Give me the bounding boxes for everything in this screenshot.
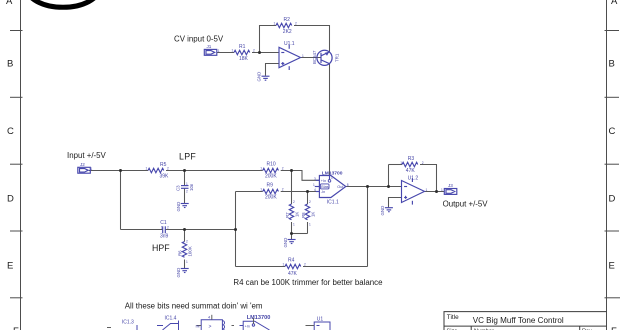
svg-text:CV input 0-5V: CV input 0-5V [174,34,224,43]
svg-text:R1: R1 [239,44,246,50]
capacitor C1 [163,226,166,233]
svg-text:U1.1: U1.1 [284,41,295,47]
svg-text:1: 1 [302,54,304,58]
svg-text:>: > [209,324,212,330]
wire TR1 emitter long vertical to IC1.1 bias [329,64,331,176]
wire IC1.1 out to U1.2 -in [346,186,402,188]
svg-text:200K: 200K [265,195,277,201]
svg-text:TR1: TR1 [335,53,340,62]
wire R3 feedback top right [420,165,437,192]
title block vertical divider 1 [470,326,472,330]
svg-text:2: 2 [282,167,284,171]
junction dot R7 top [290,169,293,172]
wire C3 to gnd [184,189,186,204]
svg-text:GND: GND [380,206,385,216]
svg-text:C: C [609,126,616,137]
wire R4 line bottom [236,266,286,268]
title block vertical divider 2 [579,326,581,330]
svg-text:47K: 47K [406,168,416,174]
junction dot LPF node [183,169,186,172]
wire R7 bottom [291,222,293,234]
right tick row C/D [605,163,620,165]
svg-text:R5: R5 [160,162,167,168]
ground R6 [181,269,189,273]
svg-text:D: D [609,194,616,205]
wire LPF node to R10 [185,170,263,172]
left tick row B/C [10,96,23,98]
svg-text:1: 1 [274,22,276,26]
wire J1 to R1 [217,52,234,54]
svg-text:4: 4 [208,315,211,320]
svg-text:B: B [609,59,615,70]
wire U1.1 +in to gnd [266,64,280,76]
svg-text:R8: R8 [301,212,306,218]
svg-text:All these bits need summat doi: All these bits need summat doin' wi 'em [125,301,263,310]
border frame left line [20,0,22,330]
svg-text:R10: R10 [267,162,276,168]
resistor R3 [402,162,418,166]
svg-text:2: 2 [304,263,306,267]
svg-text:F: F [13,326,19,330]
svg-text:C3: C3 [176,185,181,191]
svg-text:1: 1 [218,49,220,53]
junction dot R1/R2/U1.1 [258,51,261,54]
svg-text:1: 1 [260,188,262,192]
pin numbers (tiny) [91,22,444,267]
svg-text:3: 3 [314,177,316,181]
unused op-amp U1 partial symbol [306,322,331,330]
svg-text:A: A [611,0,618,7]
svg-text:D: D [7,194,14,205]
svg-text:1: 1 [260,167,262,171]
svg-text:GND: GND [257,72,262,82]
svg-text:+In: +In [321,179,326,183]
ground C3 [181,204,189,208]
svg-text:BC547: BC547 [312,50,317,64]
wire R3 feedback left vertical [388,165,390,187]
svg-text:1: 1 [331,176,333,180]
svg-text:3n9: 3n9 [160,234,169,240]
OTA IC1.1 LM13700 [315,176,346,198]
wire J2 to R5 [89,170,148,172]
svg-text:8: 8 [347,183,349,187]
logo ellipse (partial, top-left) [26,0,99,7]
unused gate IC1.3 partial symbol [136,325,138,330]
svg-text:2: 2 [186,240,188,244]
svg-text:R3: R3 [408,156,415,162]
unused gate IC1.3 pin stub [107,327,111,329]
connector J1 [204,49,217,55]
resistor R6 (vertical) [182,242,186,258]
wire R2 feedback right to transistor collector [294,26,330,52]
wire R1 to U1.1 -in [252,52,279,54]
junction dot R8 top [306,190,309,193]
resistor R1 [234,50,250,54]
resistor R9 [263,189,279,193]
wire R8 hang from -in line [307,192,309,205]
wire big vertical R9/HPF/R4 [235,192,237,267]
svg-text:U1.2: U1.2 [408,175,419,181]
right tick row D/E [605,230,620,232]
svg-text:B: B [7,59,13,70]
svg-text:2: 2 [293,200,295,204]
junction dot input J2 [119,169,122,172]
svg-text:F: F [611,326,617,330]
svg-text:IC1.3: IC1.3 [122,320,134,326]
svg-text:R9: R9 [267,183,274,189]
svg-text:Input +/-5V: Input +/-5V [67,151,107,160]
svg-text:J3: J3 [448,183,453,188]
wire output junction down to R4 [367,187,369,267]
border frame right line [606,0,608,330]
transistor TR1 [317,50,332,65]
capacitor C3 [181,186,189,189]
title block divider row [444,325,607,327]
right tick row B/C [605,96,620,98]
svg-text:+In: +In [245,324,250,328]
svg-text:VC Big Muff Tone Control: VC Big Muff Tone Control [473,316,564,325]
svg-text:GND: GND [176,268,181,278]
unused OTA IC1.2 partial symbol [240,318,270,330]
unused buffer right tiny stub [232,325,235,327]
svg-text:2: 2 [253,49,255,53]
wire R5 to LPF node [166,170,185,172]
junction dot HPF node [183,228,186,231]
svg-text:18K: 18K [239,56,249,62]
left tick row D/E [10,230,23,232]
resistor R10 [263,168,279,172]
svg-text:J2: J2 [80,162,85,167]
svg-text:J1: J1 [207,44,212,49]
svg-text:200K: 200K [265,174,277,180]
ground U1.1 [262,76,270,80]
wire U1.1 output to TR1 base [301,57,322,59]
op-amp U1.1 [279,45,301,70]
svg-text:R7: R7 [285,212,290,218]
svg-text:1: 1 [186,182,188,186]
svg-text:Out: Out [337,185,344,189]
svg-text:Bias: Bias [321,185,328,189]
resistor R4 [285,264,301,268]
svg-text:1: 1 [309,222,311,226]
svg-text:1: 1 [186,260,188,264]
svg-text:1: 1 [232,49,234,53]
svg-text:10n: 10n [189,183,194,191]
unused buffer right coil bumps [222,321,224,330]
resistor R2 [276,23,292,27]
wire LPF node down to C3 [184,171,186,186]
svg-text:IC1.1: IC1.1 [327,199,339,205]
svg-text:IC1.4: IC1.4 [165,316,177,322]
wire HPF node down to R6 [184,230,186,242]
svg-text:1: 1 [400,161,402,165]
svg-text:HPF: HPF [152,243,170,253]
svg-text:2: 2 [295,22,297,26]
svg-text:1: 1 [426,188,428,192]
wire R8 bottom [307,222,309,234]
svg-text:2: 2 [309,200,311,204]
svg-text:1: 1 [441,188,443,192]
junction dot OTA out to R4 [366,185,369,188]
svg-text:100K: 100K [188,246,193,256]
svg-text:1: 1 [146,167,148,171]
wire U1.2 out to J3 [425,191,445,193]
wire U1.2 +in to gnd [389,198,402,208]
right tick row E/F [605,297,621,299]
svg-text:1: 1 [91,167,93,171]
connector J2 [78,167,91,173]
svg-text:R4: R4 [288,258,295,264]
svg-text:1: 1 [161,226,163,230]
svg-text:LPF: LPF [179,151,196,161]
ground U1.2 [385,208,393,212]
wire R6 to gnd [184,260,186,269]
svg-text:1K: 1K [311,212,316,217]
svg-text:-In: -In [321,190,325,194]
svg-text:GND: GND [176,202,181,212]
junction dot U1.2 -in feedback [387,185,390,188]
left tick row E/F [10,297,23,299]
svg-text:R2: R2 [284,17,291,23]
wire R9 to IC1.1 -in [281,191,320,193]
ground R7/R8 [288,240,296,244]
svg-text:2K2: 2K2 [283,29,292,35]
resistor R8 (vertical) [305,204,309,220]
svg-text:LM13700: LM13700 [247,315,271,321]
svg-text:C: C [7,126,14,137]
svg-text:A: A [6,0,13,7]
resistor R5 [148,168,164,172]
svg-text:E: E [609,261,615,272]
title block outline [444,312,607,330]
svg-text:U1: U1 [317,316,324,322]
left tick row A/B [10,30,23,32]
svg-text:1: 1 [293,222,295,226]
wire R2 feedback left vertical [260,26,277,53]
svg-text:1K: 1K [295,212,300,217]
svg-text:2: 2 [167,226,169,230]
wire R7 hang from LPF/+in line [291,171,293,205]
unused gate IC1.4 partial symbol [157,321,179,330]
wire R9 line left [236,191,263,193]
left tick row C/D [10,163,23,165]
wire input junction down to HPF line [120,171,122,230]
unused buffer box part [197,315,223,330]
wire R7 node to gnd [291,234,293,240]
svg-text:1: 1 [313,183,315,187]
svg-text:47K: 47K [288,271,298,277]
right tick row A/B [605,30,620,32]
svg-text:39K: 39K [160,173,170,179]
resistor R7 (vertical) [289,204,293,220]
svg-text:2: 2 [167,167,169,171]
svg-text:IN: IN [196,324,200,329]
wire C1 to HPF node to big vertical [165,229,236,231]
svg-text:2: 2 [186,190,188,194]
wire R4 right to vertical [303,266,368,268]
connector J3 [444,189,457,195]
junction dot U1.2 out feedback [435,190,438,193]
junction dot R7/R8 bottom [290,232,293,235]
svg-text:2: 2 [422,161,424,165]
op-amp U1.2 [402,178,425,204]
wire R7/R8 bottom link [292,233,308,235]
svg-text:GND: GND [283,238,288,248]
wire R3 feedback top left [389,164,403,166]
wire HPF line left of C1 [121,229,163,231]
svg-text:2: 2 [282,188,284,192]
svg-text:E: E [7,261,13,272]
junction dot HPF to big vertical [234,228,237,231]
svg-text:R4 can be 100K trimmer for bet: R4 can be 100K trimmer for better balanc… [233,278,383,287]
svg-text:Title: Title [447,314,459,321]
svg-text:R6: R6 [178,250,183,256]
svg-text:1: 1 [283,263,285,267]
svg-text:Output +/-5V: Output +/-5V [443,199,489,208]
svg-text:4: 4 [314,188,316,192]
wire R10 to IC1.1 +in (step) [281,171,320,181]
